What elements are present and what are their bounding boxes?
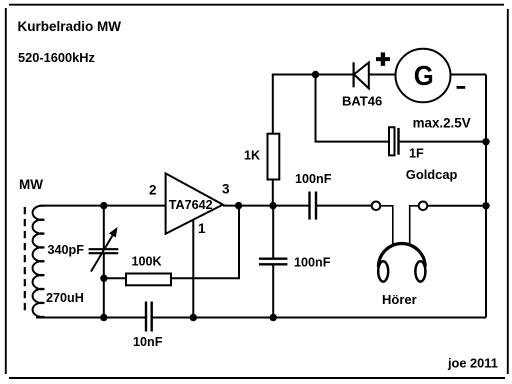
wire: meter to right rail [451,74,487,76]
node: right rail goldcap [482,138,489,145]
capacitor C5 bar plate [397,128,399,155]
svg-text:BAT46: BAT46 [342,94,382,109]
svg-text:joe 2011: joe 2011 [447,356,498,371]
wire: tank vertical lower [103,254,105,318]
wire: shunt cap upper lead [272,206,274,258]
wire: goldcap drop [316,75,390,142]
wire: right rail vertical [485,75,487,318]
ground rail [36,317,146,319]
svg-text:max.2.5V: max.2.5V [413,115,471,130]
capacitor C2 10nF plates [145,302,147,332]
wire: shunt cap lower lead [272,265,274,318]
wire: tank vertical upper [103,206,105,248]
variable capacitor C1 340pF plates [89,248,119,250]
wire: jack2 to right rail [427,205,486,207]
minus symbol [457,86,466,89]
svg-text:2: 2 [149,183,157,198]
node: rail shunt cap [270,314,277,321]
capacitor C5 1F goldcap box plate [389,127,395,155]
wire: jack2 to phones [410,206,419,246]
wire: pin 1 to ground rail [192,220,194,317]
node: 1K bottom [269,202,276,209]
diode D1 triangle [354,63,369,89]
plus symbol [376,52,390,66]
wire: 100K right to feedback riser [171,277,240,279]
svg-text:G: G [414,60,434,91]
jack terminal 2 [419,202,428,211]
node: rail tank [100,314,107,321]
headphones left cup [378,261,388,281]
wire: output pin 3 [223,205,310,207]
svg-text:270uH: 270uH [46,291,84,305]
resistor R2 1K [268,134,280,180]
node: rail pin1 [190,314,197,321]
node: output [235,202,242,209]
jack terminal 1 [372,202,381,211]
headphones band [378,243,425,266]
node: right rail jack [482,202,489,209]
wire: top rail to diode [272,74,354,76]
svg-text:100nF: 100nF [294,256,331,270]
wire: coil top to TA7642 input [40,205,165,207]
svg-text:340pF: 340pF [48,243,85,257]
wire: jack1 to phones [380,206,393,246]
node: goldcap tap [312,71,319,78]
wire: 1K lower lead [272,179,274,205]
wire: diode to meter [369,74,396,76]
wire: 1K upper lead [272,75,274,135]
wire: feedback riser [238,206,240,279]
headphones right cup [415,261,425,281]
svg-text:100K: 100K [132,255,162,269]
resistor R1 100K [126,274,171,286]
svg-text:MW: MW [19,177,43,192]
inductor L1 270uH coil [33,206,45,317]
svg-text:1F: 1F [409,147,424,161]
svg-text:Goldcap: Goldcap [406,167,458,182]
svg-text:100nF: 100nF [295,172,332,186]
wire: series cap to jack1 [316,205,372,207]
svg-text:520-1600kHz: 520-1600kHz [18,50,95,65]
capacitor C4 100nF shunt plates [259,258,288,260]
svg-text:3: 3 [222,182,230,197]
svg-text:1K: 1K [244,149,260,163]
ferrite rod (dashed line) [24,207,26,311]
svg-text:10nF: 10nF [133,335,163,349]
variable capacitor arrow [91,236,113,272]
op-amp U1 TA7642 triangle [166,173,223,233]
svg-text:TA7642: TA7642 [169,198,213,212]
wire: goldcap to right rail [399,141,487,143]
diode D1 BAT46 cathode bar [353,62,355,87]
node: 100K left junction [100,275,107,282]
svg-text:Kurbelradio MW: Kurbelradio MW [18,19,122,34]
svg-text:Hörer: Hörer [382,292,417,307]
svg-text:1: 1 [198,221,206,236]
meter G circle [396,49,451,103]
wire: junction to 100K [104,277,126,279]
node: tank top [100,202,107,209]
capacitor C3 100nF series plates [308,192,310,220]
